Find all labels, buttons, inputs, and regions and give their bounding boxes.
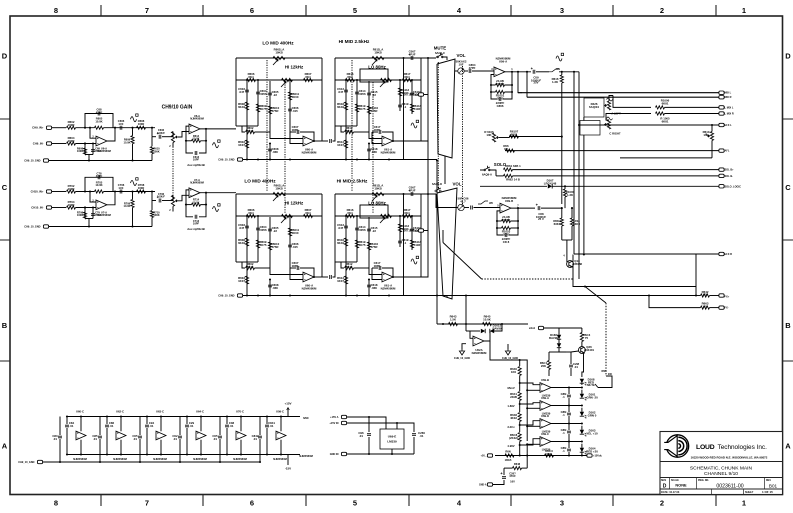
svg-text:1 OF 15: 1 OF 15: [762, 490, 773, 494]
svg-text:.068: .068: [272, 286, 278, 290]
gain pot gang dashed link: [172, 149, 174, 200]
svg-text:U69-A: U69-A: [541, 396, 549, 400]
svg-text:YEL +10: YEL +10: [586, 431, 598, 435]
capacitor C83: [58, 436, 62, 438]
capacitor C09 electrolytic: [533, 70, 535, 74]
wire EQ box top rail: [335, 193, 421, 195]
svg-text:1K00: 1K00: [497, 96, 504, 100]
wire EQ box right edge: [321, 194, 323, 277]
resistor R6C3 bottom: [545, 454, 554, 457]
svg-text:1K07: 1K07: [238, 279, 245, 283]
wire op-amp out: [314, 140, 322, 142]
svg-text:1: 1: [742, 6, 746, 15]
svg-text:100R: 100R: [138, 186, 145, 190]
wire comparator inputs: [520, 383, 540, 385]
potentiometer R611 main: [372, 192, 384, 195]
svg-text:MIX R: MIX R: [725, 96, 732, 99]
capacitor C96: [368, 417, 370, 432]
svg-text:1UF: 1UF: [118, 122, 124, 126]
resistor R609 shunt: [131, 127, 133, 129]
capacitor C6110r: [410, 93, 414, 95]
svg-text:1: 1: [742, 499, 746, 508]
capacitor C605: [268, 229, 272, 231]
capacitor C866: [491, 92, 497, 99]
svg-text:VOL: VOL: [456, 53, 465, 58]
capacitor C6110r: [410, 229, 414, 231]
svg-text:1.3K: 1.3K: [552, 80, 559, 84]
resistor R706: [84, 208, 86, 219]
resistor R6C1: [547, 361, 550, 370]
wire cap join: [186, 432, 188, 455]
svg-text:.01: .01: [173, 437, 177, 441]
svg-text:-15V: -15V: [285, 467, 291, 471]
connector GND_IN: [341, 452, 346, 455]
svg-text:100R: 100R: [138, 122, 145, 126]
svg-text:25V: 25V: [534, 80, 539, 84]
svg-text:.0056: .0056: [259, 92, 267, 96]
connector +15VDC right: [587, 454, 592, 457]
LED D168 RED MUTE: [580, 379, 584, 383]
switch-squiggle icon: [478, 201, 488, 204]
wire main line: [76, 127, 95, 129]
svg-text:47UF: 47UF: [408, 188, 415, 192]
op-amp U61: [382, 136, 393, 146]
svg-text:63K0: 63K0: [573, 222, 580, 226]
resistor R1005: [656, 112, 665, 115]
mute switch: [437, 56, 439, 58]
wire: [665, 113, 719, 115]
potentiometer R601 main: [273, 192, 285, 195]
svg-text:10KB: 10KB: [374, 186, 381, 190]
wire rc join: [85, 154, 93, 156]
fader CH9 outline: [437, 59, 455, 158]
svg-text:1K07: 1K07: [337, 279, 344, 283]
capacitor C79: [92, 208, 94, 219]
connector AFL: [719, 149, 724, 152]
svg-text:1K0: 1K0: [702, 304, 708, 308]
resistor R604: [67, 142, 76, 145]
svg-text:BAV99: BAV99: [549, 336, 558, 340]
gain pot R711: [171, 195, 174, 206]
svg-text:6K4: 6K4: [404, 211, 410, 215]
svg-text:HI 12kHz: HI 12kHz: [285, 65, 304, 70]
svg-text:U8: U8: [504, 147, 508, 151]
capacitor interstage: [330, 275, 332, 279]
svg-text:SCALE: SCALE: [671, 479, 679, 482]
svg-text:2: 2: [169, 145, 171, 148]
svg-text:1.5K: 1.5K: [450, 317, 457, 321]
diode D161: [466, 330, 480, 332]
svg-text:L MIX R: L MIX R: [725, 113, 734, 116]
svg-text:NJM4580M: NJM4580M: [233, 457, 247, 461]
capacitor C02: [178, 436, 182, 438]
resistor R608 line: [137, 126, 146, 129]
wire fb left: [372, 132, 382, 144]
svg-text:2N5088: 2N5088: [572, 262, 582, 266]
svg-text:5: 5: [353, 499, 357, 508]
svg-text:20K: 20K: [541, 364, 547, 368]
svg-text:R1050: R1050: [496, 82, 505, 86]
svg-text:U60-C: U60-C: [76, 410, 84, 414]
svg-text:511R: 511R: [414, 107, 422, 111]
wire comparator output: [551, 441, 582, 443]
svg-text:16V: 16V: [510, 479, 515, 483]
svg-text:18PF: 18PF: [292, 128, 299, 132]
wire right stack 2: [411, 216, 413, 250]
wire: [76, 207, 97, 209]
capacitor C86: [105, 425, 109, 427]
wire op-amp out: [393, 140, 421, 142]
svg-text:6K4: 6K4: [404, 75, 410, 79]
wire tap1: [519, 376, 521, 392]
wire op-amp out: [505, 71, 531, 73]
wire EQ rail2: [335, 215, 421, 217]
ground rail with connector: [237, 158, 242, 161]
wire join: [562, 239, 572, 241]
svg-text:47UF: 47UF: [509, 474, 516, 478]
svg-text:.01: .01: [230, 424, 234, 428]
wire fader2 bottom: [446, 296, 448, 298]
connector L_MIX-: [719, 112, 724, 115]
svg-text:1B1B: 1B1B: [505, 458, 512, 462]
svg-text:.01: .01: [53, 437, 57, 441]
resistor R619: [355, 240, 358, 248]
resistor R1053: [496, 221, 498, 228]
svg-text:CH10_IN-: CH10_IN-: [31, 206, 43, 210]
wire op-amp output up: [107, 128, 115, 141]
svg-text:100R: 100R: [68, 187, 76, 191]
wire comparator inputs: [520, 439, 540, 445]
svg-text:NJM4580M: NJM4580M: [381, 150, 396, 154]
op-amp U64-C: [196, 431, 206, 440]
wire EQ bus down: [427, 141, 429, 193]
resistor R608: [245, 238, 248, 246]
svg-text:75: 75: [585, 336, 589, 340]
wire stack 3: [368, 217, 370, 260]
capacitor C69: [92, 144, 94, 155]
connector MIX_R: [719, 96, 724, 99]
mute dashed routing diagonal: [443, 243, 482, 280]
resistor R6N on rail: [505, 454, 514, 457]
op-amp U60-C: [76, 431, 86, 440]
connector +15V_A: [341, 415, 346, 418]
wire pot wiper to op-amp: [178, 132, 189, 138]
svg-text:475R: 475R: [272, 245, 280, 249]
capacitor interstage: [330, 139, 332, 143]
wire fx lower: [649, 296, 701, 308]
svg-text:.1: .1: [404, 241, 407, 245]
svg-text:.068: .068: [371, 150, 377, 154]
wire EQ box top rail: [236, 193, 322, 195]
svg-text:NJM4580M: NJM4580M: [153, 457, 167, 461]
svg-text:NJM4580M: NJM4580M: [193, 457, 207, 461]
wire: [52, 207, 66, 209]
connector SOL_B-: [719, 174, 724, 177]
wire band1 to band2: [322, 276, 328, 278]
svg-text:6/9C: 6/9C: [303, 416, 309, 420]
wire base: [571, 351, 579, 352]
svg-text:D: D: [663, 484, 667, 490]
svg-text:6K4: 6K4: [248, 211, 254, 215]
svg-text:NJM4580M: NJM4580M: [299, 454, 313, 458]
wire LED chain top: [582, 353, 584, 377]
wire routing to meter dashed: [585, 287, 606, 304]
wire EQ output up: [421, 194, 428, 277]
LED D161 GRN -20: [580, 394, 584, 398]
capacitor C868: [471, 206, 473, 210]
svg-text:U69-B: U69-B: [541, 378, 549, 382]
svg-text:47PF: 47PF: [469, 66, 476, 70]
svg-text:C RIGHT: C RIGHT: [609, 132, 621, 136]
connector CH10_IN-: [46, 206, 51, 209]
svg-text:.0056: .0056: [259, 228, 267, 232]
svg-text:475R: 475R: [371, 109, 379, 113]
wire op-amp output up: [107, 192, 115, 205]
wire EQ rail2: [335, 79, 421, 81]
svg-text:EFX R: EFX R: [725, 253, 733, 256]
wire pan to resistors: [609, 96, 613, 102]
svg-text:.22: .22: [273, 229, 277, 233]
svg-text:LO MID 400Hz: LO MID 400Hz: [244, 179, 276, 184]
gnd wire: [347, 453, 414, 455]
capacitor EQ out: [396, 57, 407, 59]
resistor R645: [483, 322, 492, 325]
capacitor C618 lower: [368, 280, 370, 296]
AFL pot: [710, 132, 713, 141]
svg-text:511R: 511R: [414, 243, 422, 247]
op-amp U09-B: [500, 203, 511, 213]
wire EQ box top rail: [335, 57, 421, 59]
svg-text:MUTE: MUTE: [434, 46, 447, 51]
svg-text:NJM4580M: NJM4580M: [273, 457, 287, 461]
svg-text:C: C: [2, 183, 8, 192]
resistor R6110: [367, 242, 370, 250]
signal icon EQ out: [411, 259, 417, 264]
wire comparator inputs: [520, 421, 540, 425]
svg-text:.1: .1: [562, 449, 565, 453]
op-amp U61: [382, 272, 393, 282]
svg-text:1K07: 1K07: [337, 143, 344, 147]
svg-text:VOL: VOL: [452, 182, 461, 187]
svg-text:U09-A: U09-A: [499, 59, 507, 63]
wire joins: [346, 261, 357, 263]
wire right stack 1: [399, 80, 401, 111]
resistor R6113r: [410, 104, 413, 112]
connector CH9_10_GND: [43, 159, 48, 162]
svg-text:.01: .01: [359, 434, 363, 438]
wire stack 1: [246, 80, 248, 126]
wire supply stubs: [200, 417, 202, 432]
resistor R704: [67, 206, 76, 209]
resistor R1052 fb: [497, 211, 500, 221]
VOL2 switch: [435, 190, 437, 192]
wire fb left: [372, 268, 382, 280]
resistor R1051: [490, 85, 492, 92]
resistor R1006: [656, 106, 665, 109]
svg-text:CD 8: CD 8: [503, 240, 510, 244]
connector CH9_10_GND bottom left: [37, 460, 42, 463]
wire: [455, 70, 458, 72]
LO 80Hz band box: [360, 205, 388, 218]
svg-text:6: 6: [250, 499, 254, 508]
svg-text:2K15: 2K15: [247, 265, 254, 269]
output routing box: [573, 255, 696, 287]
LED D162 GRN 0: [580, 412, 584, 416]
svg-text:10PF: 10PF: [193, 158, 200, 162]
wire EQ rail2: [236, 215, 322, 217]
wire AFL bottom leftward: [620, 157, 712, 159]
svg-text:A: A: [785, 442, 791, 451]
wire supply stubs: [80, 417, 82, 432]
svg-text:.047: .047: [239, 226, 245, 230]
op-amp U62A meter: [473, 336, 484, 346]
op-amp U70-C: [236, 431, 246, 440]
svg-text:NJM4580M: NJM4580M: [190, 117, 204, 121]
svg-text:GRN -20: GRN -20: [586, 395, 598, 399]
svg-text:a/Grd: a/Grd: [529, 328, 536, 330]
resistor R6113 lower: [345, 126, 347, 160]
connector CH10_IN+: [46, 190, 51, 193]
svg-text:4K75: 4K75: [359, 243, 366, 247]
wire EQ box left edge: [334, 194, 336, 262]
resistor R616: [346, 78, 355, 81]
capacitor C614: [355, 92, 359, 94]
svg-text:2: 2: [660, 499, 664, 508]
wire: [104, 127, 156, 129]
wire stack 4: [289, 80, 291, 116]
svg-text:6K81: 6K81: [511, 132, 518, 136]
svg-text:4K75: 4K75: [260, 107, 267, 111]
svg-text:B: B: [2, 321, 8, 330]
long wire SOLO+: [513, 169, 719, 171]
signal icon EQ out: [411, 123, 417, 128]
svg-text:.047: .047: [338, 226, 344, 230]
svg-text:REV.: REV.: [766, 480, 772, 482]
svg-text:MUTE: MUTE: [587, 383, 595, 387]
svg-text:100R: 100R: [68, 139, 76, 143]
svg-text:R661 63B 1: R661 63B 1: [505, 164, 521, 168]
svg-text:63K1: 63K1: [554, 222, 561, 226]
svg-text:1K00: 1K00: [292, 231, 299, 235]
pan pot C box: [580, 121, 600, 136]
mute switch gang dashed: [437, 62, 439, 188]
svg-text:6K4: 6K4: [305, 211, 311, 215]
svg-text:SOL B+: SOL B+: [725, 169, 735, 172]
capacitor EQ out: [396, 193, 407, 195]
svg-text:AFL: AFL: [725, 150, 730, 153]
capacitor C68 feedback: [98, 112, 100, 116]
long wire SOLO-: [513, 175, 719, 177]
wire EQ vertical to gnd rail: [403, 58, 405, 160]
wire bus down to VOL2 node: [561, 83, 563, 204]
svg-text:47PF: 47PF: [96, 110, 103, 114]
capacitor C8N3: [567, 431, 571, 433]
svg-text:+15V IN: +15V IN: [329, 422, 338, 425]
op-amp U6A: [96, 136, 107, 146]
svg-text:47PF: 47PF: [96, 174, 103, 178]
capacitor C606 coupling: [120, 126, 122, 130]
capacitor C260: [412, 434, 416, 436]
wire main line: [76, 191, 95, 193]
svg-text:7: 7: [145, 6, 149, 15]
svg-text:DWG. NO.: DWG. NO.: [698, 480, 709, 482]
svg-text:LM339: LM339: [387, 440, 397, 444]
capacitor C614: [355, 228, 359, 230]
svg-text:.01: .01: [93, 437, 97, 441]
svg-text:6K4: 6K4: [305, 75, 311, 79]
svg-text:U64-C: U64-C: [196, 410, 204, 414]
svg-text:NJM4580M: NJM4580M: [302, 150, 317, 154]
svg-text:100R: 100R: [68, 203, 76, 207]
capacitor C613 feedback: [186, 141, 193, 153]
supply -15V stub: [287, 455, 289, 466]
resistor R606: [247, 78, 256, 81]
svg-text:100R: 100R: [77, 149, 83, 153]
svg-text:CH9_10_GND: CH9_10_GND: [218, 159, 234, 162]
svg-text:CH9_10_GND: CH9_10_GND: [24, 160, 40, 163]
resistor R610 shunt2: [151, 127, 153, 129]
connector L_MIX+: [719, 106, 724, 109]
svg-text:25 V: 25 V: [538, 217, 544, 221]
svg-text:95mV: 95mV: [507, 386, 515, 390]
svg-text:5: 5: [353, 6, 357, 15]
svg-text:6K49: 6K49: [238, 241, 245, 245]
svg-text:10.0K: 10.0K: [95, 183, 102, 187]
ground CH9_10_GND meter2: [505, 349, 510, 355]
vertical bus wire 2: [578, 72, 580, 279]
resistor R643b: [561, 208, 563, 218]
capacitor C2M: [569, 365, 573, 367]
svg-text:2N4401: 2N4401: [584, 348, 594, 352]
wire stack 1: [345, 80, 347, 126]
resistor R705 in line: [95, 190, 104, 193]
svg-text:.047: .047: [338, 90, 344, 94]
VOL1 pot: [458, 68, 464, 74]
svg-text:.01: .01: [190, 424, 194, 428]
diode D165: [557, 335, 561, 339]
op-amp U60: [303, 272, 314, 282]
wire aux: [499, 137, 510, 139]
svg-text:HI MID 2.5kHz: HI MID 2.5kHz: [339, 39, 370, 44]
resistor R641: [518, 392, 521, 401]
svg-text:Technologies Inc.: Technologies Inc.: [718, 444, 768, 451]
connector FX+: [719, 294, 724, 297]
capacitor C603: [245, 90, 249, 92]
svg-text:NJM4580M: NJM4580M: [73, 457, 87, 461]
svg-text:B01: B01: [769, 483, 778, 488]
svg-text:U09-B: U09-B: [505, 199, 513, 203]
resistor R616 shunt: [561, 72, 563, 75]
capacitor C613: [344, 226, 348, 228]
wire op-amp out: [314, 276, 322, 278]
wire: [52, 191, 66, 193]
resistor R6112c: [368, 260, 370, 268]
wire meter input top: [437, 323, 528, 325]
capacitor C615: [367, 229, 371, 231]
resistor R1050 fb: [491, 75, 494, 86]
diode D162: [490, 329, 494, 333]
op-amp U09-C: [276, 431, 286, 440]
svg-text:BAV99: BAV99: [492, 326, 501, 330]
svg-text:10KB: 10KB: [374, 50, 381, 54]
svg-text:LOUD: LOUD: [696, 444, 715, 451]
svg-text:CHANNEL 9/10: CHANNEL 9/10: [704, 471, 738, 477]
svg-text:W0: W0: [489, 202, 493, 205]
svg-text:6AQ9-A: 6AQ9-A: [482, 173, 492, 177]
transistor Q26: [579, 347, 586, 354]
resistor R6113r: [410, 240, 413, 248]
svg-text:1K0: 1K0: [511, 370, 517, 374]
